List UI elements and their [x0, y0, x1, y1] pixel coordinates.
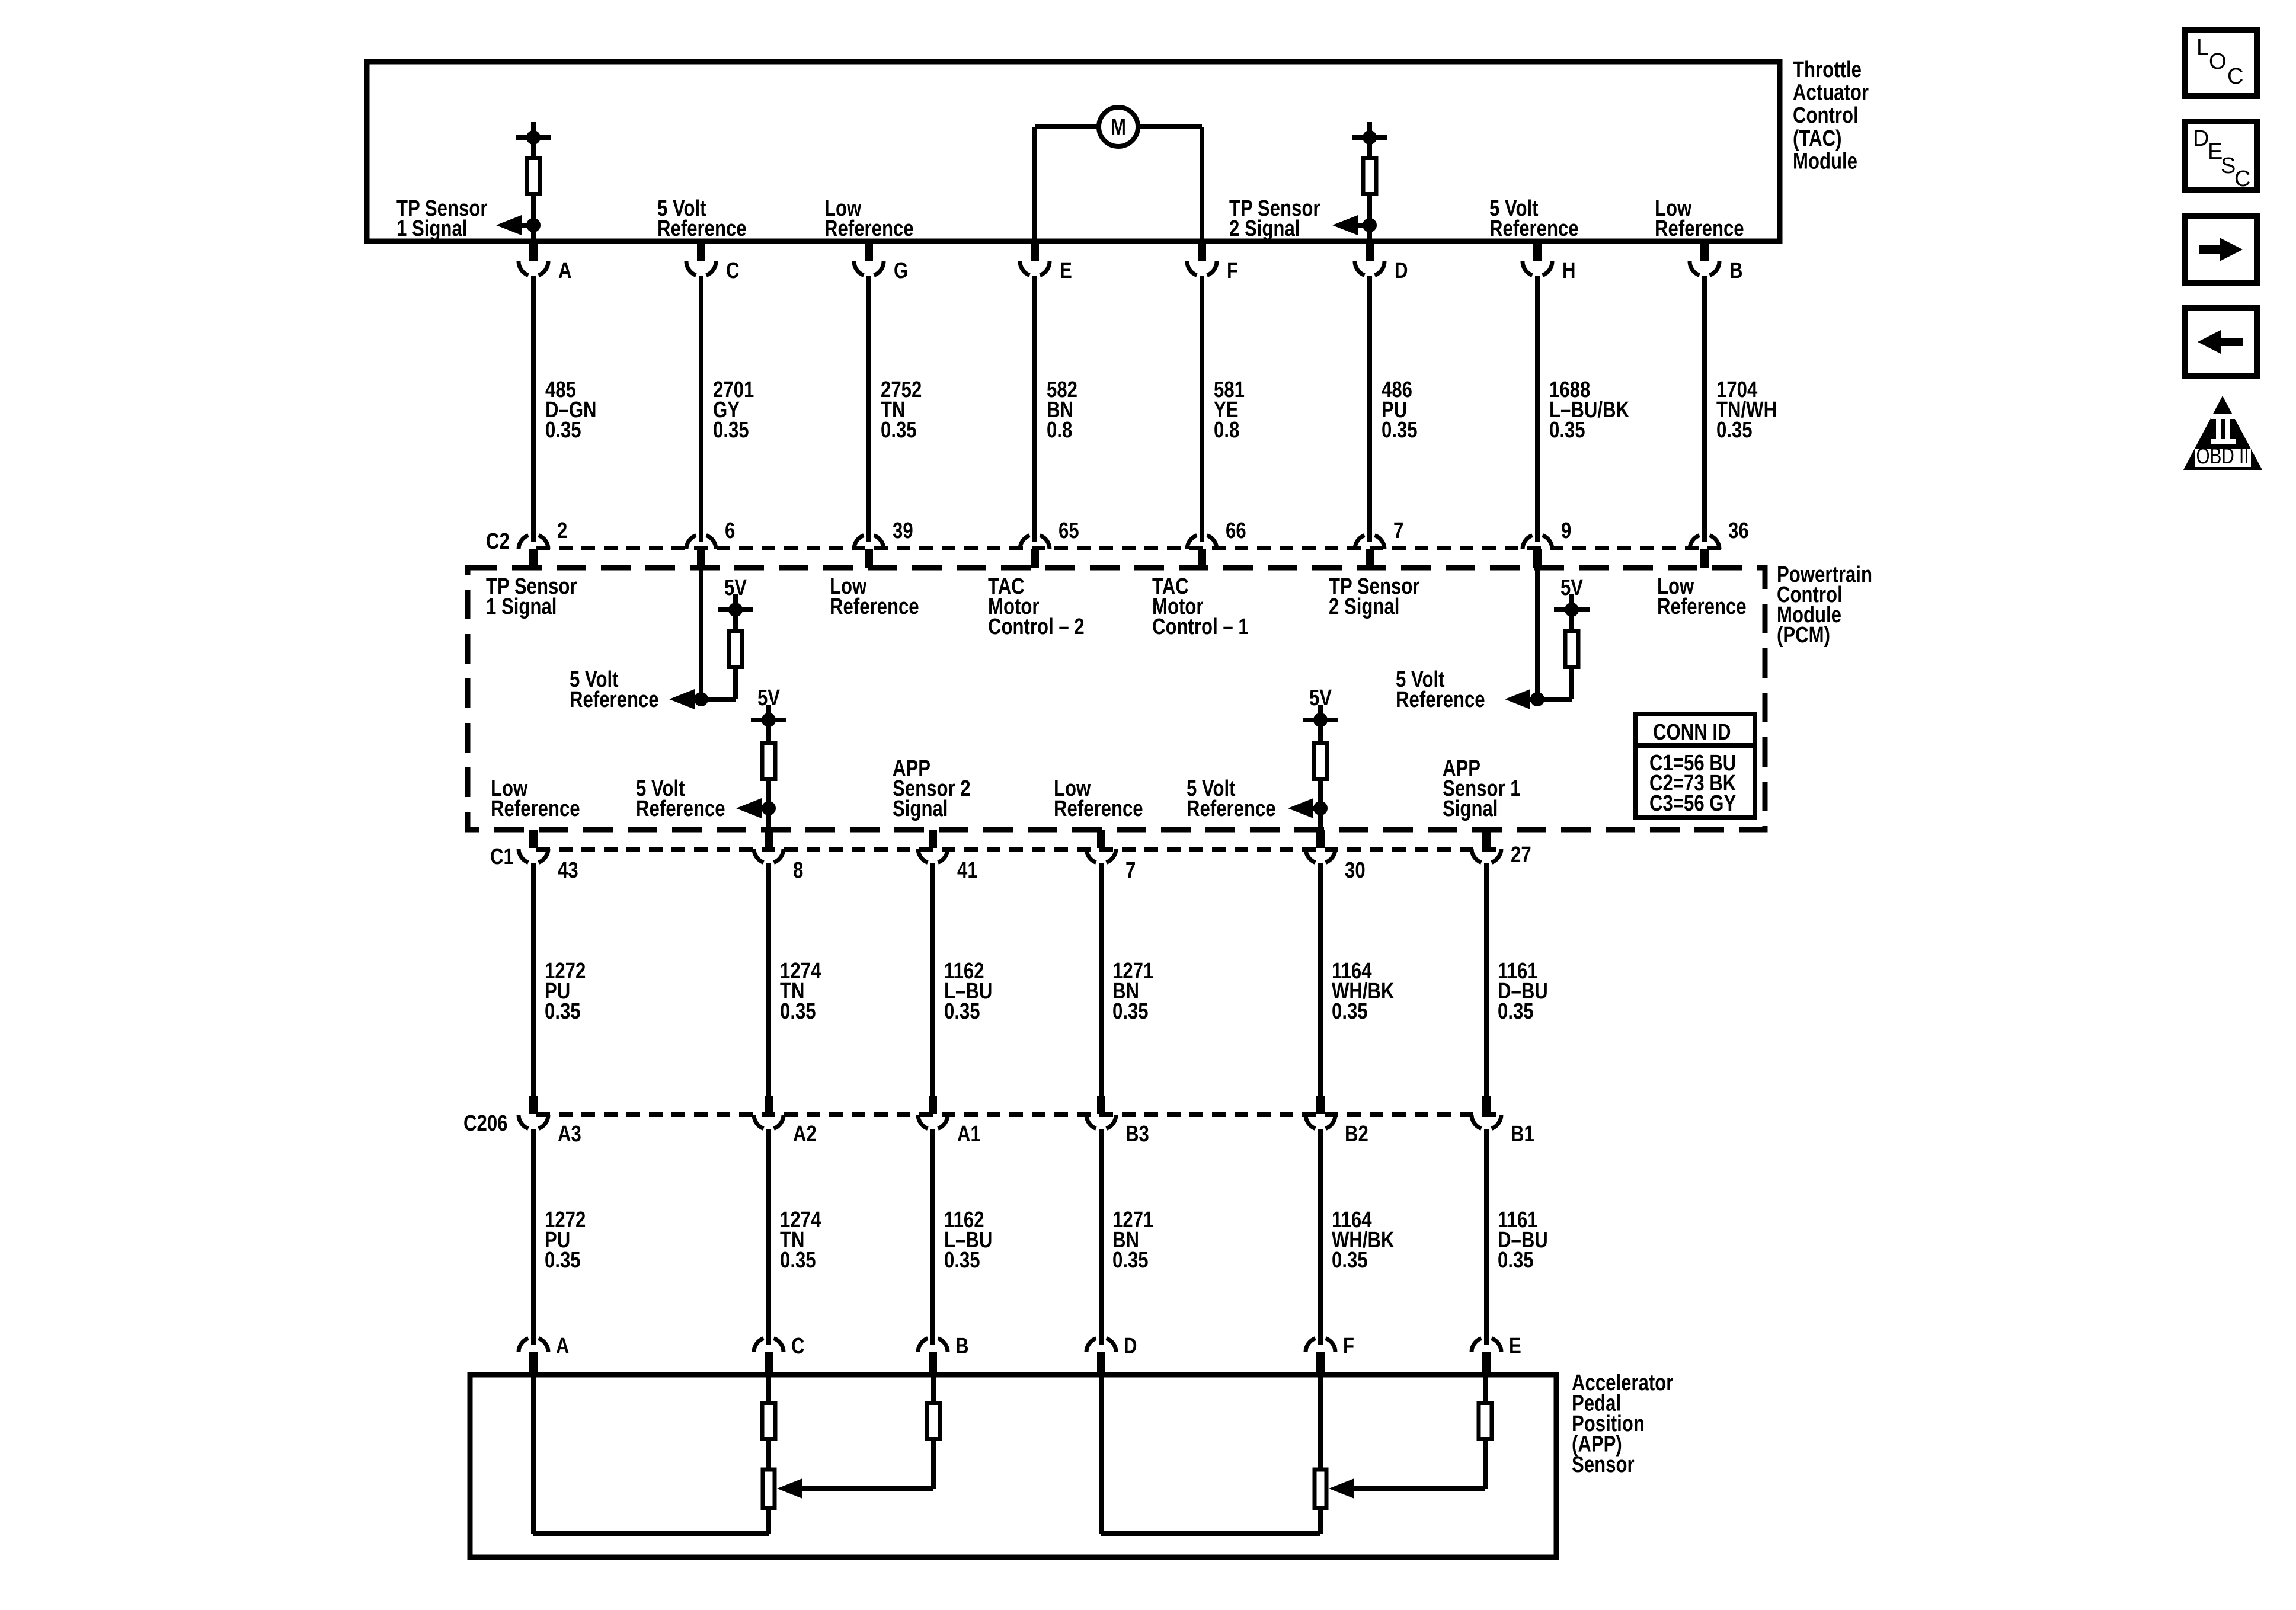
svg-text:Actuator: Actuator [1793, 81, 1869, 105]
svg-text:B: B [1729, 258, 1743, 283]
svg-text:0.35: 0.35 [881, 418, 917, 443]
svg-text:D: D [1395, 258, 1408, 283]
svg-text:F: F [1227, 258, 1238, 283]
svg-text:0.8: 0.8 [1214, 418, 1239, 443]
svg-text:D: D [1124, 1334, 1137, 1359]
svg-text:Module: Module [1793, 149, 1857, 174]
svg-text:B1: B1 [1511, 1122, 1534, 1147]
svg-text:G: G [894, 258, 908, 283]
svg-text:0.35: 0.35 [1498, 1248, 1534, 1273]
svg-text:C: C [2227, 64, 2243, 89]
svg-text:0.35: 0.35 [1549, 418, 1585, 443]
svg-text:Reference: Reference [1657, 594, 1747, 619]
svg-text:2: 2 [557, 518, 567, 543]
svg-text:41: 41 [957, 858, 978, 883]
svg-text:0.35: 0.35 [1498, 999, 1534, 1024]
svg-text:OBD II: OBD II [2196, 444, 2249, 469]
svg-text:Control – 1: Control – 1 [1152, 614, 1249, 639]
svg-text:B: B [955, 1334, 969, 1359]
svg-text:6: 6 [725, 518, 735, 543]
svg-text:Reference: Reference [491, 796, 580, 821]
svg-text:B3: B3 [1125, 1122, 1149, 1147]
svg-text:C2: C2 [486, 529, 510, 554]
svg-text:C206: C206 [463, 1111, 507, 1136]
svg-text:Reference: Reference [830, 594, 919, 619]
svg-text:8: 8 [793, 858, 803, 883]
svg-text:5V: 5V [724, 575, 747, 600]
svg-text:C3=56 GY: C3=56 GY [1649, 791, 1736, 816]
svg-text:M: M [1111, 115, 1126, 140]
svg-text:F: F [1343, 1334, 1354, 1359]
svg-text:0.35: 0.35 [545, 1248, 581, 1273]
svg-text:0.35: 0.35 [713, 418, 749, 443]
svg-text:1 Signal: 1 Signal [486, 594, 557, 619]
svg-text:Reference: Reference [1655, 216, 1744, 241]
svg-text:E: E [1509, 1334, 1521, 1359]
svg-text:Reference: Reference [1489, 216, 1579, 241]
svg-text:9: 9 [1561, 518, 1571, 543]
svg-text:0.35: 0.35 [1332, 999, 1368, 1024]
svg-text:0.35: 0.35 [780, 1248, 816, 1273]
svg-text:Reference: Reference [824, 216, 914, 241]
svg-text:0.35: 0.35 [1716, 418, 1753, 443]
svg-text:30: 30 [1345, 858, 1366, 883]
svg-text:0.8: 0.8 [1047, 418, 1072, 443]
svg-text:Sensor: Sensor [1572, 1452, 1635, 1477]
svg-text:C: C [791, 1334, 805, 1359]
svg-text:O: O [2209, 49, 2227, 74]
svg-text:0.35: 0.35 [944, 999, 980, 1024]
svg-text:Reference: Reference [1396, 687, 1485, 712]
svg-text:27: 27 [1511, 843, 1531, 868]
svg-text:A2: A2 [793, 1122, 817, 1147]
svg-text:0.35: 0.35 [545, 418, 581, 443]
svg-text:C: C [2234, 167, 2250, 191]
svg-text:0.35: 0.35 [944, 1248, 980, 1273]
svg-text:A1: A1 [957, 1122, 981, 1147]
svg-text:Reference: Reference [636, 796, 725, 821]
svg-text:(TAC): (TAC) [1793, 126, 1841, 151]
svg-text:H: H [1562, 258, 1576, 283]
svg-text:Control – 2: Control – 2 [988, 614, 1085, 639]
svg-text:0.35: 0.35 [1112, 999, 1149, 1024]
svg-text:Throttle: Throttle [1793, 57, 1862, 82]
svg-text:A: A [558, 258, 572, 283]
svg-text:2 Signal: 2 Signal [1329, 594, 1399, 619]
svg-text:0.35: 0.35 [545, 999, 581, 1024]
svg-text:Reference: Reference [1187, 796, 1276, 821]
svg-text:Signal: Signal [1443, 796, 1498, 821]
svg-text:7: 7 [1125, 858, 1136, 883]
svg-text:L: L [2196, 35, 2209, 60]
svg-text:Reference: Reference [657, 216, 747, 241]
svg-text:Control: Control [1793, 103, 1859, 128]
svg-text:0.35: 0.35 [1112, 1248, 1149, 1273]
svg-text:S: S [2221, 153, 2236, 178]
svg-text:A: A [556, 1334, 570, 1359]
svg-text:66: 66 [1226, 518, 1246, 543]
svg-text:A3: A3 [558, 1122, 581, 1147]
svg-text:Signal: Signal [893, 796, 948, 821]
svg-text:7: 7 [1393, 518, 1403, 543]
svg-text:0.35: 0.35 [1332, 1248, 1368, 1273]
svg-text:43: 43 [558, 858, 578, 883]
svg-text:CONN ID: CONN ID [1653, 720, 1731, 745]
svg-text:E: E [1060, 258, 1072, 283]
svg-text:36: 36 [1728, 518, 1749, 543]
svg-text:(PCM): (PCM) [1777, 623, 1830, 648]
svg-text:5V: 5V [757, 686, 780, 710]
svg-text:39: 39 [893, 518, 913, 543]
svg-text:0.35: 0.35 [1382, 418, 1418, 443]
svg-text:Reference: Reference [570, 687, 659, 712]
svg-text:5V: 5V [1560, 575, 1583, 600]
svg-text:D: D [2193, 126, 2209, 151]
svg-text:1 Signal: 1 Signal [396, 216, 467, 241]
svg-text:5V: 5V [1309, 686, 1332, 710]
svg-text:65: 65 [1059, 518, 1079, 543]
svg-text:B2: B2 [1345, 1122, 1368, 1147]
svg-text:C1: C1 [490, 844, 514, 869]
svg-text:Reference: Reference [1054, 796, 1143, 821]
svg-text:C: C [726, 258, 740, 283]
svg-text:2 Signal: 2 Signal [1229, 216, 1300, 241]
svg-text:0.35: 0.35 [780, 999, 816, 1024]
